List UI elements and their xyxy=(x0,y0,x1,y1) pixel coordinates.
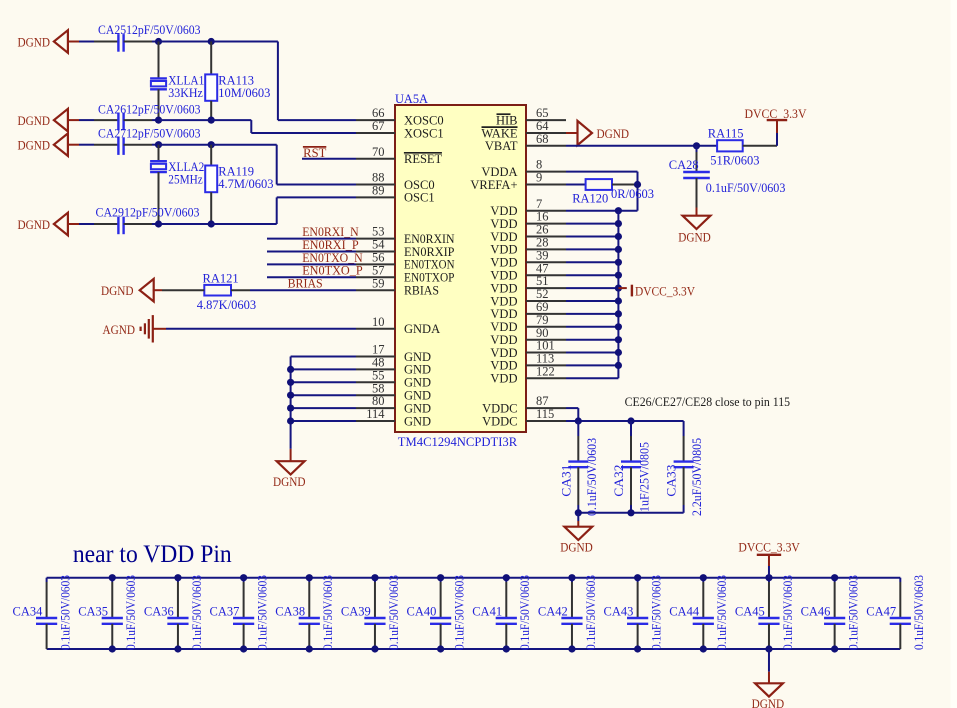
svg-text:VDD: VDD xyxy=(490,359,517,373)
wire VDDC net xyxy=(566,407,578,409)
svg-text:VBAT: VBAT xyxy=(485,139,518,153)
node (CA28 tap) xyxy=(693,142,700,149)
ground DGND (CA28) xyxy=(696,208,698,216)
op-amp U1 : microcontroller UA5A TM4C1294NCPDTI3R body xyxy=(395,105,526,432)
svg-text:DGND: DGND xyxy=(597,127,630,141)
wire xyxy=(566,313,618,315)
svg-text:CA35: CA35 xyxy=(78,605,108,619)
node (CA38 bottom) xyxy=(306,645,313,652)
node (CA36 bottom) xyxy=(174,645,181,652)
pin 87 xyxy=(526,407,566,409)
node (RA120 to VDD net) xyxy=(634,181,641,188)
node (CA46 top) xyxy=(831,574,838,581)
pin 88 xyxy=(356,184,395,186)
svg-text:VDD: VDD xyxy=(490,307,517,321)
node (CA44 top) xyxy=(700,574,707,581)
pin 113 xyxy=(526,364,566,366)
svg-text:67: 67 xyxy=(372,119,385,133)
capacitor CA37 0.1uF/50V/0603 xyxy=(243,578,245,582)
svg-text:VDDC: VDDC xyxy=(482,414,517,428)
wire xyxy=(566,364,618,366)
wire to OSC0 xyxy=(211,144,277,146)
svg-text:DGND: DGND xyxy=(18,114,51,128)
svg-text:101: 101 xyxy=(536,339,555,353)
svg-text:0.1uF/50V/0603: 0.1uF/50V/0603 xyxy=(585,438,599,516)
capacitor CA34 0.1uF/50V/0603 xyxy=(46,578,48,582)
svg-text:0.1uF/50V/0603: 0.1uF/50V/0603 xyxy=(584,575,598,650)
svg-text:57: 57 xyxy=(372,263,385,277)
svg-text:VDD: VDD xyxy=(490,256,517,270)
svg-text:28: 28 xyxy=(536,236,549,250)
node (CA35 bottom) xyxy=(109,645,116,652)
node (RA119 bottom) xyxy=(208,220,215,227)
capacitor CA44 0.1uF/50V/0603 xyxy=(702,578,704,582)
pin 89 xyxy=(356,196,395,198)
node (CA46 bottom) xyxy=(831,645,838,652)
svg-text:89: 89 xyxy=(372,184,385,198)
pin 69 xyxy=(526,313,566,315)
node (CA40 bottom) xyxy=(437,645,444,652)
node xyxy=(575,509,582,516)
svg-text:XOSC1: XOSC1 xyxy=(404,126,444,140)
node (VDD pin 16) xyxy=(615,220,622,227)
svg-text:EN0TXON: EN0TXON xyxy=(404,258,455,272)
pin 48 xyxy=(356,368,395,370)
node (VDD pin 39) xyxy=(615,259,622,266)
pin 68 xyxy=(526,145,566,147)
svg-text:10M/0603: 10M/0603 xyxy=(218,86,270,100)
wire xyxy=(267,276,356,278)
node (GND pin 80) xyxy=(287,405,294,412)
node (GND pin 55) xyxy=(287,379,294,386)
svg-text:GND: GND xyxy=(404,401,431,415)
node xyxy=(575,417,582,424)
wire xyxy=(566,287,618,289)
pin 8 xyxy=(526,171,566,173)
node (CA36 top) xyxy=(174,574,181,581)
svg-text:80: 80 xyxy=(372,394,385,408)
node (VDD pin 113) xyxy=(615,362,622,369)
capacitor CA38 0.1uF/50V/0603 xyxy=(308,578,310,582)
svg-text:EN0RXIP: EN0RXIP xyxy=(404,245,455,259)
svg-text:8: 8 xyxy=(536,158,542,172)
pin 47 xyxy=(526,274,566,276)
svg-text:OSC0: OSC0 xyxy=(404,178,435,192)
svg-text:56: 56 xyxy=(372,251,385,265)
wire xyxy=(267,238,356,240)
svg-text:VREFA+: VREFA+ xyxy=(470,178,517,192)
node (CA43 top) xyxy=(634,574,641,581)
svg-text:0.1uF/50V/0603: 0.1uF/50V/0603 xyxy=(321,575,335,650)
pin 101 xyxy=(526,352,566,354)
capacitor CA42 0.1uF/50V/0603 xyxy=(571,578,573,582)
wire VDDA net xyxy=(566,171,638,173)
node (GND pin 114) xyxy=(287,417,294,424)
svg-text:0.1uF/50V/0603: 0.1uF/50V/0603 xyxy=(124,575,138,650)
node (VDD pin 47) xyxy=(615,272,622,279)
wire xyxy=(159,144,212,146)
node (CA43 bottom) xyxy=(634,645,641,652)
pin 54 xyxy=(356,251,395,253)
svg-text:0.1uF/50V/0603: 0.1uF/50V/0603 xyxy=(255,575,269,650)
svg-text:17: 17 xyxy=(372,343,385,357)
wire xyxy=(566,339,618,341)
capacitor CA46 0.1uF/50V/0603 xyxy=(834,578,836,582)
svg-text:4.7M/0603: 4.7M/0603 xyxy=(218,177,273,191)
svg-text:0R/0603: 0R/0603 xyxy=(611,187,654,201)
node (crystal2 top) xyxy=(155,141,162,148)
svg-text:0.1uF/50V/0603: 0.1uF/50V/0603 xyxy=(190,575,204,650)
wire bottom rail xyxy=(578,512,683,514)
node (CA44 bottom) xyxy=(700,645,707,652)
node (VDD pin 28) xyxy=(615,246,622,253)
wire xyxy=(68,119,79,121)
svg-text:68: 68 xyxy=(536,132,549,146)
svg-text:DGND: DGND xyxy=(560,541,593,555)
capacitor CA41 0.1uF/50V/0603 xyxy=(505,578,507,582)
pin 7 xyxy=(526,210,566,212)
svg-text:DVCC_3.3V: DVCC_3.3V xyxy=(738,540,800,554)
wire xyxy=(291,381,356,383)
node (bus top) xyxy=(615,207,622,214)
svg-text:CA32: CA32 xyxy=(612,465,626,497)
svg-text:26: 26 xyxy=(536,223,549,237)
svg-text:CA39: CA39 xyxy=(341,605,371,619)
node (GND pin 58) xyxy=(287,392,294,399)
svg-text:10: 10 xyxy=(372,315,385,329)
ground DGND (bottom row) xyxy=(768,649,770,672)
wire xyxy=(291,420,356,422)
svg-text:DGND: DGND xyxy=(18,35,51,49)
svg-text:EN0TXO_P: EN0TXO_P xyxy=(302,264,363,278)
svg-text:113: 113 xyxy=(536,352,554,366)
svg-text:9: 9 xyxy=(536,171,542,185)
node (VDD pin 79) xyxy=(615,323,622,330)
svg-text:DVCC_3.3V: DVCC_3.3V xyxy=(635,284,695,298)
pin 53 xyxy=(356,238,395,240)
svg-text:55: 55 xyxy=(372,368,385,382)
svg-text:CA38: CA38 xyxy=(275,605,305,619)
pin 80 xyxy=(356,407,395,409)
wire RST to RESET pin xyxy=(302,158,356,160)
svg-text:CA40: CA40 xyxy=(407,605,437,619)
pin 16 xyxy=(526,223,566,225)
node (CA38 top) xyxy=(306,574,313,581)
svg-text:GND: GND xyxy=(404,414,431,428)
svg-text:4.87K/0603: 4.87K/0603 xyxy=(197,298,256,312)
capacitor CA28 0.1uF/50V/0603 xyxy=(696,146,698,152)
svg-text:OSC1: OSC1 xyxy=(404,191,435,205)
power DVCC_3.3V (VDD bus) xyxy=(618,287,626,289)
capacitor CA31 0.1uF/50V/0603 xyxy=(577,421,579,436)
pin 26 xyxy=(526,236,566,238)
wire to XOSC1 xyxy=(211,119,251,121)
svg-text:0.1uF/50V/0603: 0.1uF/50V/0603 xyxy=(912,575,926,650)
wire xyxy=(291,368,356,370)
svg-text:51: 51 xyxy=(536,274,549,288)
resistor RA113 10M/0603 xyxy=(210,42,212,75)
node (GND pin 48) xyxy=(287,366,294,373)
svg-text:TM4C1294NCPDTI3R: TM4C1294NCPDTI3R xyxy=(398,435,518,449)
svg-text:1uF/25V/0805: 1uF/25V/0805 xyxy=(638,442,652,512)
capacitor CA35 0.1uF/50V/0603 xyxy=(111,578,113,582)
capacitor CA47 0.1uF/50V/0603 xyxy=(899,578,901,582)
svg-text:VDD: VDD xyxy=(490,372,517,386)
wire GNDA xyxy=(153,328,166,330)
svg-text:58: 58 xyxy=(372,381,385,395)
svg-text:VDD: VDD xyxy=(490,281,517,295)
node (CA37 top) xyxy=(240,574,247,581)
wire to XOSC0 xyxy=(211,41,278,43)
svg-text:AGND: AGND xyxy=(103,323,136,337)
svg-text:CA36: CA36 xyxy=(144,605,174,619)
wire xyxy=(153,289,162,291)
node (CA39 top) xyxy=(371,574,378,581)
wire xyxy=(291,407,356,409)
svg-text:0.1uF/50V/0603: 0.1uF/50V/0603 xyxy=(781,575,795,650)
sheet edge xyxy=(951,0,957,708)
svg-text:CA44: CA44 xyxy=(669,605,700,619)
svg-text:HIB: HIB xyxy=(496,113,518,127)
capacitor CA36 0.1uF/50V/0603 xyxy=(177,578,179,582)
svg-text:DVCC_3.3V: DVCC_3.3V xyxy=(745,107,807,121)
svg-text:CA47: CA47 xyxy=(866,605,896,619)
node (RA119 top) xyxy=(208,141,215,148)
wire xyxy=(566,274,618,276)
svg-text:CA2512pF/50V/0603: CA2512pF/50V/0603 xyxy=(98,22,201,37)
svg-text:0.1uF/50V/0603: 0.1uF/50V/0603 xyxy=(715,575,729,650)
ground DGND (GND bus) xyxy=(290,449,292,461)
svg-text:70: 70 xyxy=(372,145,385,159)
pin 122 xyxy=(526,377,566,379)
svg-text:0.1uF/50V/0603: 0.1uF/50V/0603 xyxy=(847,575,861,650)
wire xyxy=(566,248,618,250)
wire xyxy=(566,377,618,379)
svg-text:47: 47 xyxy=(536,261,549,275)
node (VDD pin 90) xyxy=(615,336,622,343)
wire GND bus xyxy=(291,356,356,358)
svg-text:VDD: VDD xyxy=(490,230,517,244)
wire to OSC1 xyxy=(211,223,277,225)
svg-text:CA45: CA45 xyxy=(735,605,765,619)
pin 10 xyxy=(356,328,395,330)
svg-text:CE26/CE27/CE28 close to pin 11: CE26/CE27/CE28 close to pin 115 xyxy=(625,395,791,409)
svg-text:DGND: DGND xyxy=(18,139,51,153)
svg-text:EN0RXI_P: EN0RXI_P xyxy=(302,238,359,252)
svg-text:7: 7 xyxy=(536,197,542,211)
pin 90 xyxy=(526,339,566,341)
svg-text:54: 54 xyxy=(372,238,385,252)
svg-text:VDD: VDD xyxy=(490,269,517,283)
pin 57 xyxy=(356,276,395,278)
svg-text:0.1uF/50V/0603: 0.1uF/50V/0603 xyxy=(706,181,786,195)
svg-text:CA28: CA28 xyxy=(669,158,699,172)
svg-text:GND: GND xyxy=(404,363,431,377)
pin 114 xyxy=(356,420,395,422)
svg-text:GND: GND xyxy=(404,389,431,403)
svg-text:66: 66 xyxy=(372,106,385,120)
wire VDD pin7 xyxy=(566,210,638,212)
node (VDD pin 51) xyxy=(615,285,622,292)
node (RA113 top) xyxy=(208,38,215,45)
wire xyxy=(566,300,618,302)
wire VDD bus xyxy=(617,211,619,379)
svg-text:33KHz: 33KHz xyxy=(168,86,203,100)
node (crystal bottom) xyxy=(155,117,162,124)
wire xyxy=(159,41,212,43)
resistor RA121 4.87K/0603 xyxy=(204,285,231,296)
svg-text:51R/0603: 51R/0603 xyxy=(710,154,759,168)
power DVCC_3.3V (bottom row) xyxy=(768,555,770,566)
crystal XLLA1 33KHz xyxy=(158,42,160,79)
capacitor CA40 0.1uF/50V/0603 xyxy=(440,578,442,582)
node (CA41 top) xyxy=(503,574,510,581)
svg-text:VDD: VDD xyxy=(490,346,517,360)
svg-text:DGND: DGND xyxy=(273,475,306,489)
svg-text:0.1uF/50V/0603: 0.1uF/50V/0603 xyxy=(518,575,532,650)
svg-text:VDDC: VDDC xyxy=(482,401,517,415)
node (CA35 top) xyxy=(109,574,116,581)
node (VDD pin 101) xyxy=(615,349,622,356)
svg-text:VDD: VDD xyxy=(490,294,517,308)
power DVCC_3.3V (top right) xyxy=(776,133,778,146)
svg-text:RA121: RA121 xyxy=(203,271,239,285)
wire bottom rail xyxy=(47,648,901,650)
pin 115 xyxy=(526,420,566,422)
svg-text:0.1uF/50V/0603: 0.1uF/50V/0603 xyxy=(387,575,401,650)
resistor RA115 51R/0603 xyxy=(717,140,743,151)
node (CA42 bottom) xyxy=(568,645,575,652)
node (VDD pin 52) xyxy=(615,297,622,304)
svg-text:VDD: VDD xyxy=(490,243,517,257)
capacitor CA32 1uF/25V/0805 xyxy=(630,421,632,436)
wire xyxy=(159,119,212,121)
svg-text:25MHz: 25MHz xyxy=(168,173,203,187)
wire xyxy=(68,144,79,146)
svg-text:RA115: RA115 xyxy=(708,126,744,140)
svg-text:CA31: CA31 xyxy=(559,465,573,497)
wire xyxy=(291,394,356,396)
svg-text:VDDA: VDDA xyxy=(481,165,517,179)
svg-text:115: 115 xyxy=(536,407,554,421)
svg-text:48: 48 xyxy=(372,356,385,370)
node xyxy=(627,417,634,424)
svg-text:CA46: CA46 xyxy=(801,605,831,619)
svg-text:114: 114 xyxy=(366,407,385,421)
pin 55 xyxy=(356,381,395,383)
svg-text:87: 87 xyxy=(536,394,549,408)
wire WAKE to DGND xyxy=(566,132,578,134)
capacitor CA39 0.1uF/50V/0603 xyxy=(374,578,376,582)
svg-text:CA2612pF/50V/0603: CA2612pF/50V/0603 xyxy=(98,101,201,116)
wire xyxy=(267,263,356,265)
wire xyxy=(124,41,152,43)
svg-text:0.1uF/50V/0603: 0.1uF/50V/0603 xyxy=(650,575,664,650)
pin 52 xyxy=(526,300,566,302)
node (CA41 bottom) xyxy=(503,645,510,652)
wire xyxy=(566,261,618,263)
wire xyxy=(124,144,152,146)
node (CA42 top) xyxy=(568,574,575,581)
svg-text:88: 88 xyxy=(372,171,385,185)
svg-text:near to VDD Pin: near to VDD Pin xyxy=(73,539,232,568)
svg-text:CA43: CA43 xyxy=(604,605,634,619)
svg-text:CA2712pF/50V/0603: CA2712pF/50V/0603 xyxy=(98,126,201,141)
svg-text:16: 16 xyxy=(536,210,549,224)
node (VDD pin 26) xyxy=(615,233,622,240)
wire xyxy=(566,352,618,354)
svg-text:BRIAS: BRIAS xyxy=(288,277,323,291)
wire xyxy=(68,41,79,43)
svg-text:GND: GND xyxy=(404,350,431,364)
resistor RA120 0R/0603 xyxy=(566,184,586,186)
svg-text:39: 39 xyxy=(536,248,549,262)
wire xyxy=(124,223,152,225)
pin 28 xyxy=(526,248,566,250)
wire xyxy=(566,326,618,328)
svg-text:RBIAS: RBIAS xyxy=(404,284,439,298)
crystal XLLA2 25MHz xyxy=(158,145,160,162)
pin 59 xyxy=(356,289,395,291)
svg-text:2.2uF/50V/0805: 2.2uF/50V/0805 xyxy=(690,438,704,516)
node (RA113 bottom) xyxy=(208,117,215,124)
svg-text:VDD: VDD xyxy=(490,217,517,231)
svg-text:59: 59 xyxy=(372,276,385,290)
node (CA45 bottom) xyxy=(765,645,772,652)
svg-text:EN0RXI_N: EN0RXI_N xyxy=(302,225,359,239)
svg-text:EN0TXO_N: EN0TXO_N xyxy=(302,251,363,265)
pin 9 xyxy=(526,184,566,186)
svg-text:DGND: DGND xyxy=(678,231,711,245)
pin 58 xyxy=(356,394,395,396)
svg-text:VDD: VDD xyxy=(490,204,517,218)
svg-text:DGND: DGND xyxy=(101,284,134,298)
node (crystal top / CA25) xyxy=(155,38,162,45)
svg-text:69: 69 xyxy=(536,300,549,314)
wire xyxy=(124,119,152,121)
svg-text:52: 52 xyxy=(536,287,549,301)
svg-text:VDD: VDD xyxy=(490,320,517,334)
wire xyxy=(68,223,79,225)
svg-text:0.1uF/50V/0603: 0.1uF/50V/0603 xyxy=(58,575,72,650)
wire VBAT net xyxy=(566,145,717,147)
svg-text:CA41: CA41 xyxy=(472,605,502,619)
svg-text:UA5A: UA5A xyxy=(395,92,428,106)
node (CA45 top) xyxy=(765,574,772,581)
node xyxy=(627,509,634,516)
capacitor CA45 0.1uF/50V/0603 xyxy=(768,578,770,582)
svg-text:CA42: CA42 xyxy=(538,605,568,619)
svg-text:0.1uF/50V/0603: 0.1uF/50V/0603 xyxy=(452,575,466,650)
ground DGND (WAKE) right-pointing xyxy=(578,121,593,145)
svg-text:65: 65 xyxy=(536,106,549,120)
pin 66 xyxy=(356,119,395,121)
svg-text:CA34: CA34 xyxy=(13,605,44,619)
svg-text:DGND: DGND xyxy=(752,697,785,708)
svg-text:GND: GND xyxy=(404,376,431,390)
svg-text:EN0TXOP: EN0TXOP xyxy=(404,271,455,285)
ground DGND (CA31 rail) xyxy=(577,513,579,521)
svg-text:XOSC0: XOSC0 xyxy=(404,113,444,127)
wire xyxy=(267,251,356,253)
node (VDD pin 69) xyxy=(615,310,622,317)
svg-text:DGND: DGND xyxy=(18,218,51,232)
node (CA39 bottom) xyxy=(371,645,378,652)
svg-text:CA33: CA33 xyxy=(665,465,679,497)
wire top rail xyxy=(47,577,901,579)
svg-text:RESET: RESET xyxy=(404,152,443,166)
svg-text:53: 53 xyxy=(372,225,385,239)
